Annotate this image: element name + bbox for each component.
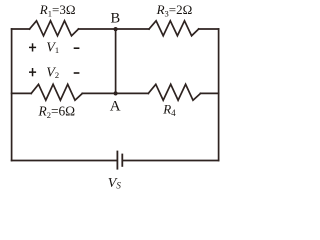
wire top-left stub xyxy=(12,28,30,30)
svg-text:R4: R4 xyxy=(162,102,176,119)
label minus of V2 xyxy=(74,72,80,74)
node B junction dot xyxy=(114,27,118,31)
svg-text:VS: VS xyxy=(108,176,122,191)
svg-text:V1: V1 xyxy=(46,41,59,56)
wire bottom left segment xyxy=(12,160,117,162)
label plus of V1 xyxy=(29,43,36,51)
battery VS long plate xyxy=(116,151,118,170)
svg-text:R3=2Ω: R3=2Ω xyxy=(156,2,193,19)
wire R2 to node A xyxy=(82,92,115,94)
wire bottom right segment xyxy=(123,160,219,162)
svg-text:V2: V2 xyxy=(46,65,59,80)
label plus of V2 xyxy=(29,68,36,76)
resistor R2 xyxy=(31,84,82,100)
svg-text:R1=3Ω: R1=3Ω xyxy=(39,2,76,19)
wire left edge xyxy=(11,29,13,161)
wire middle-left stub xyxy=(12,92,32,94)
wire R3 to top-right corner xyxy=(199,28,219,30)
resistor R3 xyxy=(149,21,199,36)
label minus of V1 xyxy=(74,47,80,49)
resistor R4 xyxy=(148,84,200,100)
wire node B to node A xyxy=(115,29,117,93)
svg-text:A: A xyxy=(110,98,121,114)
wire node B to R3 xyxy=(116,28,149,30)
wire R4 to right edge xyxy=(201,92,219,94)
wire R1 to node B xyxy=(79,28,116,30)
wire node A to R4 xyxy=(116,92,149,94)
svg-text:R2=6Ω: R2=6Ω xyxy=(38,103,76,120)
resistor R1 xyxy=(30,21,79,36)
svg-text:B: B xyxy=(111,11,121,27)
wire right edge xyxy=(218,29,220,161)
node A junction dot xyxy=(114,91,118,95)
battery VS short plate xyxy=(121,154,123,167)
